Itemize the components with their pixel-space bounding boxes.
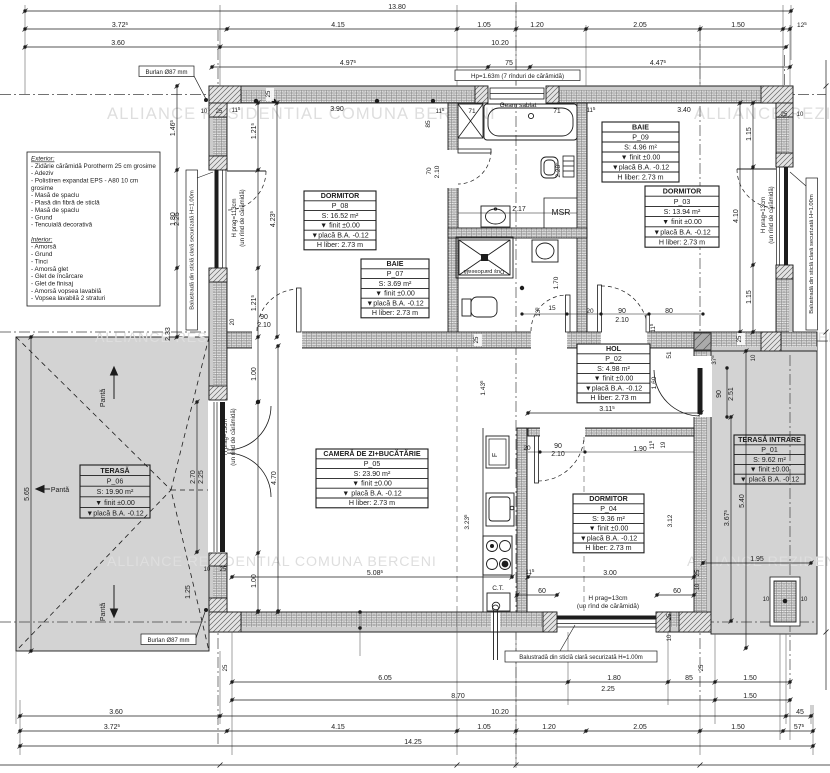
svg-text:1.95: 1.95 [750,556,764,563]
svg-text:5.65: 5.65 [24,487,31,501]
svg-text:Hp=1.63m (7 rînduri de cărămid: Hp=1.63m (7 rînduri de cărămidă) [471,73,564,80]
svg-text:25: 25 [699,664,705,671]
pier bottom-left [209,598,227,612]
svg-text:10: 10 [201,109,208,115]
svg-text:F: F [492,453,499,457]
column entrance terrace [770,577,800,626]
svg-text:2.25: 2.25 [174,212,181,226]
svg-text:- Adeziv: - Adeziv [31,170,54,177]
svg-text:BAIE: BAIE [632,123,649,131]
terrace hip ridge dashed lines [16,337,209,651]
svg-text:14.25: 14.25 [404,739,422,746]
svg-text:S: 23.90 m²: S: 23.90 m² [354,470,391,478]
terrace entrance dims [745,351,747,648]
svg-text:S: 19.90 m²: S: 19.90 m² [97,488,134,496]
svg-text:20: 20 [523,445,531,452]
svg-text:90: 90 [554,443,562,450]
svg-text:10: 10 [204,567,211,573]
P.04 bottom dims [528,576,694,578]
svg-text:5.40: 5.40 [739,494,746,508]
panta arrow north [36,367,118,617]
svg-text:S: 4.98 m²: S: 4.98 m² [597,365,630,373]
svg-text:S: 16.52 m²: S: 16.52 m² [322,212,359,220]
svg-text:P_03: P_03 [674,198,691,206]
svg-text:H liber: 2.73 m: H liber: 2.73 m [585,544,631,552]
opening: right window P.03 with glass balustrade [775,167,794,265]
svg-text:- Zidărie cărămidă Porotherm 2: - Zidărie cărămidă Porotherm 25 cm grosi… [31,163,156,170]
svg-text:4.70: 4.70 [271,471,278,485]
svg-text:2.51: 2.51 [728,387,735,401]
svg-text:1.00: 1.00 [251,574,258,588]
dim row 3.60/10.20/45 [20,715,811,717]
exterior wall right lower [694,351,711,632]
svg-text:▼ finit ±0.00: ▼ finit ±0.00 [375,290,415,298]
svg-text:1.15: 1.15 [746,127,753,141]
svg-text:- Masă de șpaclu: - Masă de șpaclu [31,192,79,199]
svg-text:P_02: P_02 [605,355,622,363]
svg-text:H liber: 2.73 m: H liber: 2.73 m [590,394,636,402]
svg-text:20: 20 [230,318,236,325]
room table DORMITOR P.08 [304,191,376,250]
room table DORMITOR P.04 [573,494,644,553]
svg-text:▼placă B.A. -0.12: ▼placă B.A. -0.12 [653,228,711,236]
door P.08 in middle wall [297,288,302,332]
svg-text:H prag=113cm: H prag=113cm [232,198,238,237]
svg-text:(un rînd de cărămidă): (un rînd de cărămidă) [577,603,639,610]
svg-text:- Glet de finisaj: - Glet de finisaj [31,281,73,288]
svg-text:2.10: 2.10 [434,165,441,178]
svg-text:CAMERĂ DE ZI+BUCĂTĂRIE: CAMERĂ DE ZI+BUCĂTĂRIE [323,449,420,458]
svg-text:Exterior:: Exterior: [31,156,55,163]
extension line below bottom wall x=360 [359,612,361,656]
right vertical dims [739,103,741,332]
finishes spec box [27,152,160,306]
svg-text:▼ finit ±0.00: ▼ finit ±0.00 [621,153,661,161]
Burlan label bottom [141,634,196,645]
svg-text:- Tinci: - Tinci [31,258,48,265]
pier bottom window jamb right [656,612,670,632]
bathtub BAIE P.09 [484,104,577,140]
svg-text:Burlan Ø87 mm: Burlan Ø87 mm [147,638,189,644]
opening: entrance door [693,356,712,417]
svg-text:45: 45 [796,709,804,716]
svg-text:- Glet de încărcare: - Glet de încărcare [31,273,84,280]
door BAIE P.07 [566,295,571,332]
left terrace dim 5.65 [30,337,32,651]
svg-text:1.70: 1.70 [553,276,560,289]
dim 1.95 column [703,562,811,564]
svg-text:H liber: 2.73 m: H liber: 2.73 m [617,173,663,181]
svg-text:13.80: 13.80 [388,4,406,11]
svg-text:P_01: P_01 [761,446,778,454]
svg-text:4.15: 4.15 [331,22,345,29]
svg-text:19: 19 [661,441,667,448]
svg-text:3.60: 3.60 [111,40,125,47]
svg-text:S: 3.69 m²: S: 3.69 m² [379,280,412,288]
svg-text:Geam sablat: Geam sablat [500,102,537,109]
pier jamb left door top [209,386,227,400]
left vertical dims [176,86,178,337]
svg-text:3.60: 3.60 [109,709,123,716]
svg-text:25: 25 [474,336,480,343]
towel radiator BAIE P.09 [563,156,574,177]
interior wall middle [227,332,694,348]
svg-text:▼ finit ±0.00: ▼ finit ±0.00 [352,480,392,488]
vanity sink BAIE P.09 [481,206,510,227]
pier below top-left [209,103,227,117]
svg-text:BAIE: BAIE [387,260,404,268]
svg-text:P_09: P_09 [632,133,649,141]
pier below top-right [776,103,793,117]
svg-text:C.T.: C.T. [492,585,504,592]
entrance terrace slab P.01 [711,351,817,634]
interior wall kitchen/P.04 [517,428,527,612]
svg-text:Duș pardoseală: Duș pardoseală [463,268,504,274]
room table TERASA P.06 [80,465,150,518]
svg-text:10: 10 [695,583,701,590]
svg-text:- Amorsă vopsea lavabilă: - Amorsă vopsea lavabilă [31,288,102,295]
living room 5.085 dim [232,576,512,578]
svg-text:25: 25 [223,664,229,671]
opening: bottom window P.04 with glass balustrade [557,611,656,633]
svg-text:15: 15 [548,305,556,312]
svg-text:2.70: 2.70 [190,470,197,484]
svg-text:S: 9.36 m²: S: 9.36 m² [592,515,625,523]
hol 3.115 dim [528,412,701,414]
door swing P.08 left window [227,170,266,172]
svg-text:1.20: 1.20 [530,22,544,29]
svg-text:▼placă B.A. -0.12: ▼placă B.A. -0.12 [585,384,643,392]
room height dims [276,103,278,337]
svg-text:▼ finit ±0.00: ▼ finit ±0.00 [589,525,629,533]
svg-text:2.17: 2.17 [512,206,526,213]
pier jamb left win1 top [209,156,227,170]
svg-text:1.50: 1.50 [743,675,757,682]
door P.04 [535,436,539,483]
exterior wall right upper [776,103,793,332]
svg-text:S: 4.96 m²: S: 4.96 m² [624,143,657,151]
toilet BAIE P.09 [541,157,558,178]
svg-text:2.10: 2.10 [257,322,271,329]
svg-text:71: 71 [553,108,561,115]
extension lines top [25,5,791,94]
opening: left glass door living room [208,400,228,553]
svg-text:25: 25 [266,90,272,97]
dim row 4.975 / 75 / 4.475 [212,66,790,68]
dim row 6.05 [232,681,790,683]
svg-text:HOL: HOL [606,345,622,353]
svg-text:▼placă B.A. -0.12: ▼placă B.A. -0.12 [612,163,670,171]
pier jamb right win top [776,153,793,167]
svg-text:1.60: 1.60 [651,376,658,389]
svg-text:P_04: P_04 [600,505,617,513]
svg-text:▼placă B.A. -0.12: ▼placă B.A. -0.12 [86,509,144,517]
svg-text:- Polistiren expandat EPS - A8: - Polistiren expandat EPS - A80 10 cm [31,178,138,185]
svg-text:3.40: 3.40 [677,107,691,114]
exterior wall right step [694,332,817,351]
svg-text:Balustradă din sticlă clară se: Balustradă din sticlă clară securizată H… [190,190,196,310]
svg-text:71: 71 [468,108,476,115]
svg-text:Interior:: Interior: [31,236,53,243]
svg-text:1.50: 1.50 [731,22,745,29]
svg-text:P_07: P_07 [387,270,404,278]
pier top-right corner [761,86,793,103]
svg-text:H liber: 2.73 m: H liber: 2.73 m [659,239,705,247]
fridge F [486,436,509,468]
svg-text:25: 25 [216,109,223,115]
insulation strip top wall [209,86,793,90]
svg-text:H prag=13cm: H prag=13cm [223,419,229,455]
svg-text:H liber: 2.73 m: H liber: 2.73 m [349,499,395,507]
svg-text:DORMITOR: DORMITOR [663,188,702,196]
svg-text:Burlan Ø87 mm: Burlan Ø87 mm [145,70,187,76]
svg-text:Balustradă din sticlă clară se: Balustradă din sticlă clară securizată H… [519,655,643,661]
toilet BAIE P.07 [462,297,497,317]
svg-text:1.80: 1.80 [607,675,621,682]
dim row bottom segments [20,730,813,732]
double door living room terrace [227,406,271,497]
room table BAIE P.09 [602,122,679,182]
svg-text:Balustradă din sticlă clară se: Balustradă din sticlă clară securizată H… [809,194,815,314]
svg-text:1.15: 1.15 [746,290,753,304]
svg-text:▼placă B.A. -0.12: ▼placă B.A. -0.12 [366,299,424,307]
wall face dots [254,99,258,103]
svg-text:25: 25 [220,567,227,573]
far right boundary line [825,60,827,690]
interior wall hol/P.04 [528,428,694,436]
room table HOL P.02 [577,344,650,403]
svg-text:6.05: 6.05 [378,675,392,682]
svg-text:1.25: 1.25 [185,585,192,599]
svg-text:Pantă: Pantă [100,389,107,407]
svg-text:▼ finit ±0.00: ▼ finit ±0.00 [662,218,702,226]
svg-text:3.00: 3.00 [603,570,617,577]
svg-text:H liber: 2.73 m: H liber: 2.73 m [317,241,363,249]
svg-text:DORMITOR: DORMITOR [321,192,360,200]
svg-text:▼ finit ±0.00: ▼ finit ±0.00 [320,222,360,230]
svg-text:Pantă: Pantă [100,603,107,621]
svg-text:4.15: 4.15 [331,724,345,731]
washing machine niche MSR [544,198,577,228]
svg-text:- Grund: - Grund [31,251,53,258]
svg-text:4.10: 4.10 [733,209,740,223]
svg-text:H liber: 2.73 m: H liber: 2.73 m [372,309,418,317]
svg-text:2.10: 2.10 [615,317,629,324]
svg-text:▼ placă B.A. -0.12: ▼ placă B.A. -0.12 [342,489,402,497]
svg-text:- Masă de șpaclu: - Masă de șpaclu [31,207,79,214]
pier bottom-right corner [679,612,711,632]
pier bottom window jamb left [543,612,557,632]
opening: top window geam sablat [488,85,546,104]
svg-text:▼ finit ±0.00: ▼ finit ±0.00 [750,466,790,474]
shaft with X next to tub [458,104,483,138]
glass door dim 2.70/2.25 [196,402,198,552]
dim row 13.80 [25,10,791,12]
Hp label box [455,70,580,81]
svg-text:10: 10 [763,597,770,603]
exterior wall top [209,86,793,103]
svg-text:P_06: P_06 [107,478,124,486]
svg-text:▼ finit ±0.00: ▼ finit ±0.00 [95,499,135,507]
svg-text:10: 10 [801,597,808,603]
kitchen sink [486,493,514,526]
svg-text:- Vopsea lavabilă 2 straturi: - Vopsea lavabilă 2 straturi [31,295,105,302]
svg-text:(un rînd de cărămidă): (un rînd de cărămidă) [240,189,246,246]
room table DORMITOR P.03 [645,186,719,247]
svg-text:85: 85 [425,120,432,128]
pier jamb right win bottom [776,265,793,279]
svg-text:8.70: 8.70 [451,693,465,700]
interior wall baie P.09/P.07 west [448,103,458,332]
svg-text:1.05: 1.05 [477,724,491,731]
door BAIE P.09 [458,149,491,153]
svg-text:▼placă B.A. -0.12: ▼placă B.A. -0.12 [580,534,638,542]
kitchen counter [482,428,484,612]
dark corner block right wall [694,333,711,350]
pier jamb left win1 bottom [209,268,227,282]
room table BAIE P.07 [361,259,429,318]
door HOL to P.03 [598,285,602,332]
svg-text:- Tencuială decorativă: - Tencuială decorativă [31,222,93,229]
dim row top segments [25,28,790,30]
dim row 14.25 [20,745,813,747]
svg-text:1.50: 1.50 [743,693,757,700]
svg-text:P_08: P_08 [332,202,349,210]
extension lines bottom [16,612,813,768]
interior wall baie east [577,103,587,332]
svg-text:25: 25 [781,112,788,118]
svg-text:S: 9.62 m²: S: 9.62 m² [753,456,786,464]
svg-text:ALLIANCE REZIDENTIAL: ALLIANCE REZIDENTIAL [694,105,830,123]
opening: left window P.08 with glass balustrade [208,170,228,268]
svg-text:H prag=13cm: H prag=13cm [588,595,627,602]
dim row 3.60 / 10.20 [25,46,786,48]
svg-text:- Amorsă: - Amorsă [31,244,57,251]
sink BAIE P.07 [532,240,558,262]
svg-text:TERASĂ: TERASĂ [100,466,129,475]
svg-text:2.25: 2.25 [601,686,615,693]
svg-text:▼placă B.A. -0.12: ▼placă B.A. -0.12 [311,231,369,239]
svg-text:- Plasă din fibră de sticlă: - Plasă din fibră de sticlă [31,200,100,207]
entrance door swing arc [654,370,700,416]
light dashed extension lines [457,346,584,612]
stove 4 burners [483,536,512,575]
svg-text:ALLIANCE RESIDENTIAL COMUNA BE: ALLIANCE RESIDENTIAL COMUNA BERCENI [107,554,437,570]
svg-text:grosime: grosime [31,185,54,192]
svg-text:2.33: 2.33 [165,327,172,341]
svg-text:2.25: 2.25 [198,470,205,484]
svg-text:- Grund: - Grund [31,214,53,221]
svg-text:2.05: 2.05 [633,22,647,29]
interior wall between baths [448,228,587,238]
svg-text:60: 60 [673,588,681,595]
svg-text:85: 85 [685,675,693,682]
C.T. flue through wall [491,613,500,632]
svg-text:1.00: 1.00 [251,367,258,381]
svg-text:10: 10 [797,112,804,118]
balustrada vertical boxes [186,170,198,330]
exterior wall bottom [209,612,711,632]
svg-text:1.20: 1.20 [542,724,556,731]
pier bottom-left corner [209,612,241,632]
exterior wall left [209,103,227,612]
svg-text:MSR: MSR [552,207,571,217]
svg-text:TERASĂ INTRARE: TERASĂ INTRARE [738,435,801,444]
pier jamb left door bottom [209,553,227,566]
svg-text:1.05: 1.05 [477,22,491,29]
balustrada bottom box [505,651,657,662]
door swing right window P.03 [737,168,776,170]
svg-text:(un rînd de cărămidă): (un rînd de cărămidă) [231,408,237,465]
svg-text:75: 75 [505,60,513,67]
room table TERASA INTRARE P.01 [734,435,805,484]
bottom boundary line [0,764,830,766]
pier top-left corner [209,86,241,103]
svg-text:70: 70 [426,167,433,175]
svg-text:60: 60 [538,588,546,595]
shower Dus pardoseala BAIE P.07 [456,237,513,278]
exterior wall edge lines [209,86,817,632]
room table CAMERA DE ZI P.05 [316,449,428,508]
svg-text:10: 10 [667,634,673,641]
svg-text:10.20: 10.20 [491,40,509,47]
svg-text:(un rînd de cărămidă): (un rînd de cărămidă) [769,186,775,243]
svg-text:3.12: 3.12 [667,514,674,527]
svg-text:H prag=13cm: H prag=13cm [761,197,767,233]
Burlan label top [139,66,194,77]
svg-text:DORMITOR: DORMITOR [589,495,628,503]
svg-text:51: 51 [666,351,673,359]
svg-text:▼ placă B.A. -0.12: ▼ placă B.A. -0.12 [740,475,800,483]
svg-text:90: 90 [260,314,268,321]
svg-text:- Amorsă glet: - Amorsă glet [31,266,68,273]
dim row 8.70 [232,699,790,701]
left terrace slab P.06 [16,337,209,651]
svg-text:10: 10 [751,354,757,361]
svg-text:25: 25 [737,335,743,342]
pier top window jamb right [546,86,559,103]
pier right step [761,332,781,351]
svg-text:Pantă: Pantă [51,487,69,494]
svg-text:2.05: 2.05 [633,724,647,731]
svg-text:1.50: 1.50 [731,724,745,731]
svg-text:▼ finit ±0.00: ▼ finit ±0.00 [594,375,634,383]
svg-text:P_05: P_05 [364,460,381,468]
svg-text:S: 13.94 m²: S: 13.94 m² [664,208,701,216]
svg-text:3.90: 3.90 [330,106,344,113]
pier top window jamb left [475,86,488,103]
svg-text:25: 25 [667,613,673,620]
svg-text:90: 90 [716,390,723,398]
svg-text:10.20: 10.20 [491,709,509,716]
